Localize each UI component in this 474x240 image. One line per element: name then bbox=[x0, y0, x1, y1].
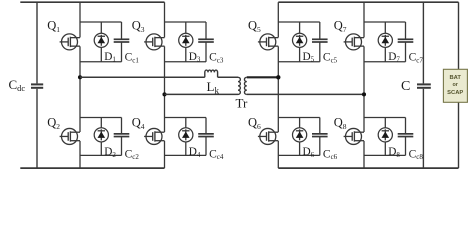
battery box BAT or SCAP bbox=[443, 69, 467, 102]
transistor Q7 bbox=[344, 34, 364, 50]
wire Q2 cell top rail tap bbox=[80, 117, 122, 119]
wire Q5 cell bottom rail tap bbox=[278, 61, 320, 63]
svg-text:D5: D5 bbox=[303, 51, 315, 64]
label D4 bbox=[189, 146, 201, 159]
capacitor C2 bbox=[114, 118, 130, 156]
label Cc8 bbox=[409, 148, 424, 161]
wire left dc rail lower bbox=[36, 89, 38, 168]
wire Q6 cell top rail tap bbox=[278, 117, 320, 119]
svg-text:D6: D6 bbox=[303, 146, 315, 159]
capacitor C1 bbox=[114, 22, 130, 62]
wire right rail lower bbox=[458, 102, 460, 168]
svg-text:D3: D3 bbox=[189, 51, 201, 64]
wire Q2 cell bottom rail tap bbox=[80, 154, 122, 156]
wire Lk to primary winding bbox=[218, 76, 238, 78]
transformer Tr secondary winding bbox=[244, 77, 246, 94]
diode D6 bbox=[293, 118, 307, 156]
capacitor Cdc bbox=[31, 84, 43, 87]
svg-text:Cc4: Cc4 bbox=[209, 148, 224, 161]
wire leg 2 upper segment bbox=[164, 2, 166, 37]
diode D2 bbox=[94, 118, 108, 156]
svg-text:Cc3: Cc3 bbox=[209, 52, 224, 65]
svg-text:Cc1: Cc1 bbox=[125, 52, 140, 65]
node leg3 midpoint bbox=[276, 75, 280, 79]
wire Q7 cell top rail tap bbox=[364, 21, 406, 23]
wire Q1 cell top rail tap bbox=[80, 21, 122, 23]
diode D1 bbox=[94, 22, 108, 62]
svg-text:Q7: Q7 bbox=[334, 19, 347, 35]
wire left dc rail upper bbox=[36, 2, 38, 83]
wire Q3 cell top rail tap bbox=[165, 21, 207, 23]
svg-text:Q6: Q6 bbox=[248, 116, 261, 132]
svg-text:Cc2: Cc2 bbox=[125, 148, 140, 161]
label Cc2 bbox=[125, 148, 140, 161]
transistor Q4 bbox=[144, 128, 164, 144]
svg-text:Cc8: Cc8 bbox=[409, 148, 424, 161]
label C bbox=[401, 79, 410, 94]
wire Q8 cell bottom rail tap bbox=[364, 154, 406, 156]
label Q6 bbox=[248, 116, 261, 132]
svg-text:or: or bbox=[452, 82, 458, 88]
label D1 bbox=[104, 51, 116, 64]
wire Q4 cell top rail tap bbox=[165, 117, 207, 119]
capacitor C4 bbox=[198, 118, 214, 156]
label D2 bbox=[104, 146, 116, 159]
label Cc5 bbox=[323, 52, 338, 65]
svg-text:Q5: Q5 bbox=[248, 19, 261, 35]
diode D5 bbox=[293, 22, 307, 62]
wire leg 1 lower segment bbox=[79, 141, 81, 168]
wire top rail left bridge bbox=[20, 1, 164, 3]
capacitor C3 bbox=[198, 22, 214, 62]
wire leg 4 lower segment bbox=[363, 141, 365, 168]
label Cc3 bbox=[209, 52, 224, 65]
label D3 bbox=[189, 51, 201, 64]
wire Q3 cell bottom rail tap bbox=[165, 61, 207, 63]
label D6 bbox=[303, 146, 315, 159]
wire secondary top (winding to leg3 mid) bbox=[247, 76, 278, 78]
wire primary bottom (leg2 mid to winding) bbox=[165, 93, 239, 95]
label Q5 bbox=[248, 19, 261, 35]
svg-text:Cdc: Cdc bbox=[9, 77, 26, 93]
node leg1 midpoint bbox=[78, 75, 82, 79]
transistor Q3 bbox=[144, 34, 164, 50]
transistor Q8 bbox=[344, 128, 364, 144]
svg-text:Q8: Q8 bbox=[334, 116, 347, 132]
wire Q6 cell bottom rail tap bbox=[278, 154, 320, 156]
label Q7 bbox=[334, 19, 347, 35]
diode D7 bbox=[378, 22, 392, 62]
svg-text:Lk: Lk bbox=[207, 79, 220, 95]
label Q4 bbox=[132, 116, 145, 132]
diode D4 bbox=[179, 118, 193, 156]
label Q1 bbox=[47, 19, 60, 35]
svg-text:D7: D7 bbox=[388, 51, 400, 64]
wire top rail right bridge bbox=[278, 1, 458, 3]
label Q2 bbox=[47, 116, 60, 132]
inductor Lk bbox=[205, 70, 218, 77]
label Cc4 bbox=[209, 148, 224, 161]
svg-text:Q1: Q1 bbox=[47, 19, 60, 35]
svg-text:D8: D8 bbox=[388, 146, 400, 159]
svg-text:Tr: Tr bbox=[236, 96, 248, 111]
wire bottom rail left bridge bbox=[20, 167, 164, 169]
label Lk bbox=[207, 79, 220, 95]
svg-text:SCAP: SCAP bbox=[447, 90, 463, 96]
node leg4 midpoint bbox=[362, 92, 366, 96]
svg-text:Q2: Q2 bbox=[47, 116, 60, 132]
capacitor C bbox=[417, 84, 431, 87]
wire Q1 cell bottom rail tap bbox=[80, 61, 122, 63]
wire primary top (leg1 mid to Lk) bbox=[80, 76, 205, 78]
wire Q7 cell bottom rail tap bbox=[364, 61, 406, 63]
wire C branch lower bbox=[422, 89, 424, 168]
wire bottom rail right bridge bbox=[278, 167, 458, 169]
label Cc1 bbox=[125, 52, 140, 65]
label Cc6 bbox=[323, 148, 338, 161]
svg-text:D4: D4 bbox=[189, 146, 201, 159]
wire Q8 cell top rail tap bbox=[364, 117, 406, 119]
transistor Q6 bbox=[258, 128, 278, 144]
transformer Tr primary winding bbox=[238, 77, 240, 94]
wire leg 4 middle segment bbox=[363, 46, 365, 132]
wire secondary bottom (winding to leg4 mid) bbox=[247, 93, 364, 95]
wire leg 3 lower segment bbox=[277, 141, 279, 168]
transistor Q1 bbox=[60, 34, 80, 50]
svg-text:Cc5: Cc5 bbox=[323, 52, 338, 65]
svg-text:Cc6: Cc6 bbox=[323, 148, 338, 161]
wire leg 2 lower segment bbox=[164, 141, 166, 168]
svg-text:C: C bbox=[401, 79, 410, 94]
wire Q4 cell bottom rail tap bbox=[165, 154, 207, 156]
capacitor C8 bbox=[398, 118, 414, 156]
wire right rail upper bbox=[458, 2, 460, 69]
wire Q5 cell top rail tap bbox=[278, 21, 320, 23]
svg-text:Q3: Q3 bbox=[132, 19, 145, 35]
transistor Q2 bbox=[60, 128, 80, 144]
label D7 bbox=[388, 51, 400, 64]
svg-text:D2: D2 bbox=[104, 146, 116, 159]
capacitor C5 bbox=[312, 22, 328, 62]
label Q3 bbox=[132, 19, 145, 35]
wire leg 4 upper segment bbox=[363, 2, 365, 37]
node leg2 midpoint bbox=[162, 92, 166, 96]
diode D8 bbox=[378, 118, 392, 156]
capacitor C6 bbox=[312, 118, 328, 156]
wire leg 1 upper segment bbox=[79, 2, 81, 37]
wire leg 3 middle segment bbox=[277, 46, 279, 132]
svg-text:Q4: Q4 bbox=[132, 116, 145, 132]
transistor Q5 bbox=[258, 34, 278, 50]
diode D3 bbox=[179, 22, 193, 62]
label Tr bbox=[236, 96, 248, 111]
label Q8 bbox=[334, 116, 347, 132]
svg-text:Cc7: Cc7 bbox=[409, 52, 424, 65]
label D5 bbox=[303, 51, 315, 64]
svg-text:BAT: BAT bbox=[449, 75, 461, 81]
label D8 bbox=[388, 146, 400, 159]
wire leg 3 upper segment bbox=[277, 2, 279, 37]
wire leg 2 middle segment bbox=[164, 46, 166, 132]
label Cc7 bbox=[409, 52, 424, 65]
wire leg 1 middle segment bbox=[79, 46, 81, 132]
wire C branch upper bbox=[422, 2, 424, 83]
capacitor C7 bbox=[398, 22, 414, 62]
label Cdc bbox=[9, 77, 26, 93]
svg-text:D1: D1 bbox=[104, 51, 116, 64]
